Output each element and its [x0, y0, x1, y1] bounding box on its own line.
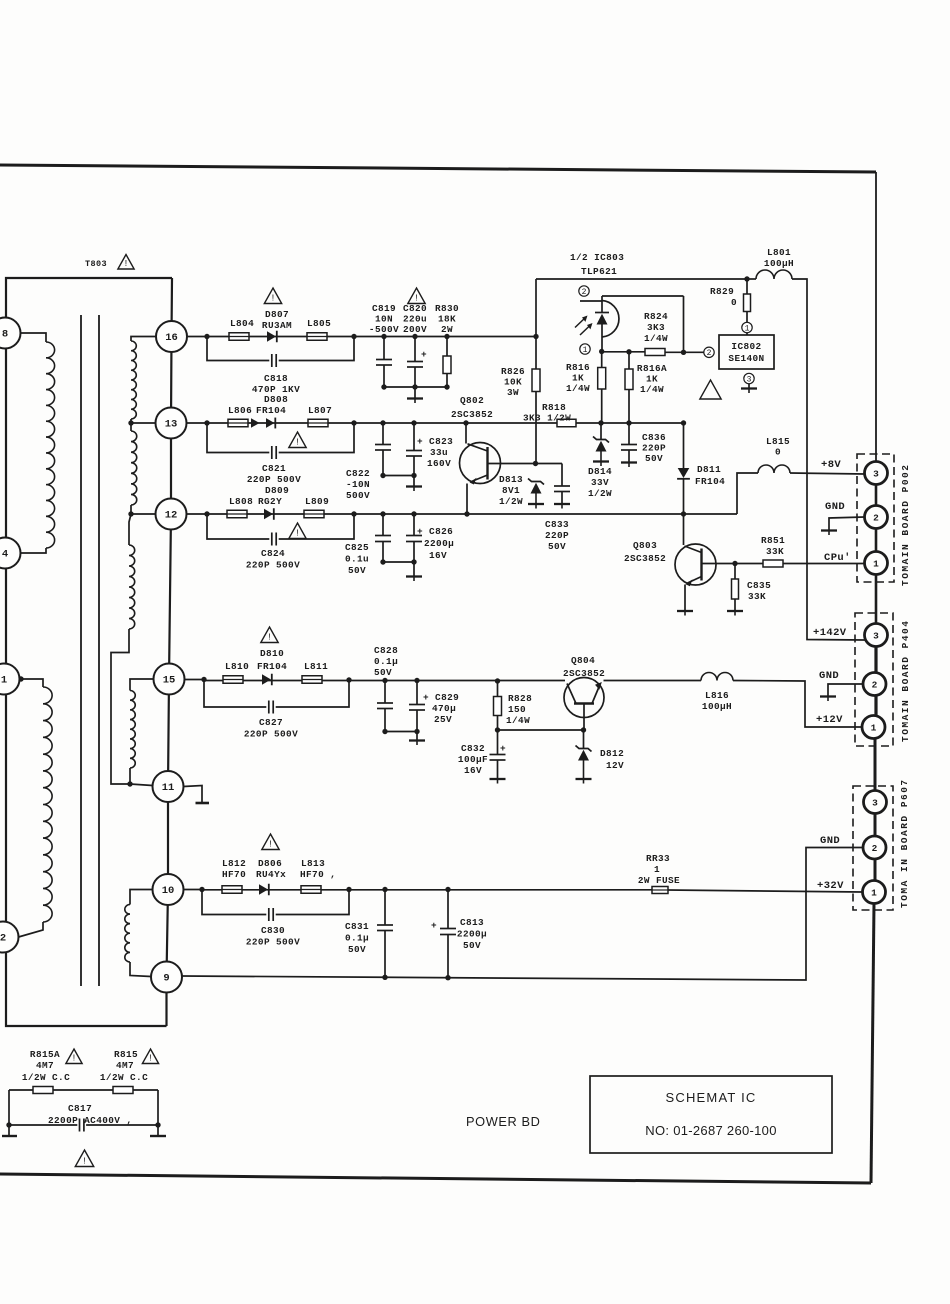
svg-text:GND: GND: [825, 501, 845, 513]
svg-text:GND: GND: [819, 670, 839, 682]
resistor C835 33K: [734, 564, 736, 580]
svg-text:L805: L805: [307, 318, 331, 329]
capacitor C836: [628, 423, 630, 445]
svg-text:+ C823: + C823: [417, 436, 453, 447]
svg-text:1/2W C.C: 1/2W C.C: [22, 1072, 70, 1083]
wire Q804 to L816: [604, 680, 702, 682]
capacitor C824 bypass loop: [207, 514, 269, 539]
svg-text:3K3: 3K3: [647, 322, 665, 333]
svg-text:-10N: -10N: [346, 479, 370, 490]
svg-text:0.1μ: 0.1μ: [374, 656, 398, 667]
transformer pin 1: [0, 664, 20, 695]
inductor L811: [302, 676, 322, 684]
optocoupler phototransistor D shape: [602, 301, 619, 338]
svg-text:3: 3: [747, 375, 752, 384]
transistor Q804 2SC3852: [564, 678, 604, 718]
svg-text:3K3 1/2W: 3K3 1/2W: [523, 413, 571, 424]
resistor R818: [557, 419, 576, 427]
wire row15 main: [204, 680, 565, 682]
svg-text:1/4W: 1/4W: [506, 715, 530, 726]
IC802 SE140N box: [719, 335, 774, 369]
wire row10 from pin10: [184, 889, 203, 891]
junction C829 top: [414, 678, 419, 683]
junction C822 top: [380, 420, 385, 425]
junction row1 at R826 line: [533, 334, 538, 339]
junction row2 left: [204, 420, 209, 425]
svg-text:2200P AC400V ,: 2200P AC400V ,: [48, 1115, 132, 1126]
diode D806 RU4YX: [259, 884, 268, 894]
capacitor C828: [384, 681, 386, 704]
wire L801 to +142V rail: [792, 279, 865, 640]
ground stub P002 pin2: [829, 517, 865, 530]
svg-text:R816A: R816A: [637, 363, 667, 374]
svg-text:9: 9: [163, 973, 169, 985]
junction C813 bottom: [445, 975, 450, 980]
resistor R815: [113, 1087, 133, 1094]
ground below C820: [414, 387, 416, 399]
inductor L809: [304, 510, 324, 518]
svg-text:+ C826: + C826: [417, 526, 453, 537]
svg-text:220P 500V: 220P 500V: [247, 474, 301, 485]
wire Q802 emitter down: [466, 484, 468, 515]
svg-text:!: !: [295, 529, 300, 539]
capacitor C823 (electrolytic): [413, 423, 415, 451]
winding pin1-pin2 (primary left lower): [21, 679, 44, 687]
svg-text:0: 0: [731, 297, 737, 308]
optocoupler LED: [601, 296, 603, 313]
resistor R851: [763, 560, 783, 567]
junction Q802 emitter row3: [464, 511, 469, 516]
capacitor C830 bypass loop: [202, 890, 266, 915]
wire row3 caps bottom: [383, 561, 414, 563]
winding pin12-pin11 with bypass wire: [129, 514, 131, 545]
junction C832: [495, 727, 500, 732]
page frame top edge: [0, 165, 876, 172]
svg-text:500V: 500V: [346, 490, 370, 501]
svg-text:50V: 50V: [548, 541, 566, 552]
svg-text:D814: D814: [588, 466, 612, 477]
junction row3 at D811 line: [681, 511, 686, 516]
junction row15 right of L811: [346, 677, 351, 682]
capacitor C825: [382, 514, 384, 536]
circled 2 LED anode: [579, 286, 589, 296]
junction at pin 1: [18, 676, 23, 681]
svg-text:2: 2: [707, 349, 712, 358]
resistor R830: [446, 337, 448, 357]
junction node 1: [599, 349, 604, 354]
capacitor C818 bypass loop: [207, 337, 269, 361]
svg-text:R828: R828: [508, 693, 532, 704]
svg-text:Q802: Q802: [460, 395, 484, 406]
winding pin16-pin13: [131, 337, 156, 342]
wire fuse to P607 pin1 +32V: [668, 890, 862, 892]
svg-text:2: 2: [582, 288, 587, 297]
wire Q803 emitter to ground: [684, 585, 686, 611]
junction R829 top: [744, 276, 749, 281]
svg-text:4: 4: [2, 549, 8, 561]
optocoupler top box: [602, 295, 684, 297]
warning triangle left of IC802 pin3: [700, 380, 721, 399]
junction C823 top: [411, 420, 416, 425]
junction C825 top: [380, 511, 385, 516]
svg-text:+32V: +32V: [817, 880, 844, 892]
svg-text:0.1μ: 0.1μ: [345, 933, 369, 944]
optocoupler box right wire: [683, 296, 685, 352]
junction base-R826 line: [533, 461, 538, 466]
junction row2 right of L807: [351, 420, 356, 425]
svg-text:1: 1: [873, 558, 879, 569]
svg-text:!: !: [267, 633, 272, 643]
svg-text:160V: 160V: [427, 458, 451, 469]
junction opto box right: [681, 350, 686, 355]
junction row10 left: [199, 887, 204, 892]
svg-text:C831: C831: [345, 921, 369, 932]
transformer secondary pin rail: [167, 278, 173, 1026]
svg-text:L804: L804: [230, 318, 254, 329]
svg-text:L809: L809: [305, 496, 329, 507]
svg-text:RU4Yx: RU4Yx: [256, 869, 286, 880]
wire row1 bottom bus: [384, 386, 447, 388]
svg-text:+: +: [431, 920, 437, 931]
svg-text:L801: L801: [767, 247, 791, 258]
connector P404 dashed box: [855, 613, 893, 746]
transformer pin 10: [153, 874, 184, 905]
svg-text:+ C829: + C829: [423, 692, 459, 703]
svg-text:TOMAIN BOARD P002: TOMAIN BOARD P002: [900, 464, 911, 586]
junction C820 top: [412, 334, 417, 339]
svg-text:16V: 16V: [429, 550, 447, 561]
wire row2 caps bottom: [383, 475, 414, 477]
svg-text:1/2W C.C: 1/2W C.C: [100, 1072, 148, 1083]
capacitor C831: [384, 890, 386, 926]
junction C831 top: [382, 887, 387, 892]
connector spine P002: [875, 462, 878, 624]
svg-text:1/4W: 1/4W: [640, 384, 664, 395]
wire Q803 base: [702, 563, 764, 565]
inductor L808: [227, 510, 247, 518]
transformer pin 12: [156, 499, 187, 530]
wire row2 main: [207, 422, 684, 424]
svg-text:1: 1: [654, 864, 660, 875]
svg-text:D806: D806: [258, 858, 282, 869]
svg-text:D807: D807: [265, 309, 289, 320]
schematic number box: [590, 1076, 832, 1153]
warning triangle above D806: [262, 834, 279, 850]
junction R816 bottom: [598, 420, 603, 425]
inductor L807: [308, 419, 328, 427]
svg-text:+: +: [421, 349, 427, 360]
svg-text:L808: L808: [229, 496, 253, 507]
circled 1 IC802 top pin: [742, 322, 752, 332]
junction row15 left: [201, 677, 206, 682]
diode D808 FR104 (double element): [251, 418, 260, 428]
svg-text:C828: C828: [374, 645, 398, 656]
svg-text:R815A: R815A: [30, 1049, 60, 1060]
warning triangle in row2 loop: [289, 432, 306, 448]
transformer pin 11: [153, 771, 184, 802]
svg-text:100μH: 100μH: [764, 258, 794, 269]
svg-text:220P 500V: 220P 500V: [246, 937, 300, 948]
svg-text:FR104: FR104: [695, 476, 725, 487]
svg-text:25V: 25V: [434, 714, 452, 725]
svg-text:TLP621: TLP621: [581, 266, 617, 277]
svg-text:2W: 2W: [441, 324, 453, 335]
svg-text:50V: 50V: [463, 940, 481, 951]
svg-text:!: !: [82, 1157, 87, 1167]
svg-text:Q803: Q803: [633, 540, 657, 551]
junction row1 left: [204, 334, 209, 339]
svg-text:16: 16: [165, 332, 178, 344]
svg-text:R829: R829: [710, 286, 734, 297]
ground at pin 11: [184, 786, 203, 803]
capacitor C820 (electrolytic): [414, 337, 416, 362]
svg-text:33u: 33u: [430, 447, 448, 458]
connector P002 dashed box: [857, 454, 894, 582]
capacitor C819: [383, 337, 385, 360]
svg-text:RU3AM: RU3AM: [262, 320, 292, 331]
transformer pin 15: [154, 664, 185, 695]
junction D812 top: [581, 727, 586, 732]
winding pin15-pin11: [130, 679, 154, 691]
svg-text:1K: 1K: [572, 373, 584, 384]
svg-text:1/2W: 1/2W: [588, 488, 612, 499]
terminal bar left: [2, 1135, 17, 1137]
P404 pin 3: [865, 624, 888, 647]
inductor L812: [222, 886, 242, 894]
wire row2 from pin13: [187, 422, 208, 424]
ground below C823: [413, 476, 415, 487]
svg-text:13: 13: [165, 419, 178, 431]
transformer pin 8: [0, 318, 21, 349]
svg-text:+8V: +8V: [821, 459, 841, 471]
resistor R826 vertical line: [535, 279, 537, 369]
svg-text:1/2W: 1/2W: [499, 496, 523, 507]
svg-text:2SC3852: 2SC3852: [563, 668, 605, 679]
svg-text:2200μ: 2200μ: [457, 929, 487, 940]
transistor Q802 2SC3852: [465, 423, 467, 444]
svg-text:1: 1: [871, 722, 877, 733]
svg-text:-500V: -500V: [369, 324, 399, 335]
inductor L801 100uH: [747, 278, 756, 280]
zener D813: [528, 479, 544, 485]
junction C826 top: [411, 511, 416, 516]
svg-text:CPu': CPu': [824, 552, 851, 564]
svg-text:4M7: 4M7: [116, 1060, 134, 1071]
inductor L810: [223, 676, 243, 684]
resistor R824: [645, 349, 665, 356]
svg-text:R826: R826: [501, 366, 525, 377]
wire right leg C817 circuit: [157, 1090, 159, 1136]
svg-text:!: !: [268, 840, 273, 850]
svg-text:SCHEMAT IC: SCHEMAT IC: [666, 1090, 757, 1105]
svg-text:L813: L813: [301, 858, 325, 869]
capacitor C813 (electrolytic): [447, 890, 449, 929]
junction R816A top: [626, 349, 631, 354]
svg-text:L810: L810: [225, 661, 249, 672]
ground below C826: [413, 562, 415, 576]
svg-text:C817: C817: [68, 1103, 92, 1114]
svg-text:!: !: [148, 1054, 153, 1064]
svg-text:HF70 ,: HF70 ,: [300, 869, 336, 880]
svg-text:2: 2: [872, 843, 878, 854]
junction R828 top: [495, 678, 500, 683]
wire row3 corner to L815: [737, 473, 758, 514]
transformer pin 9: [151, 962, 182, 993]
svg-text:1: 1: [871, 887, 877, 898]
svg-text:TOMAIN BOARD P404: TOMAIN BOARD P404: [900, 620, 911, 742]
svg-text:50V: 50V: [645, 453, 663, 464]
P607 pin 1: [863, 881, 886, 904]
svg-text:SE140N: SE140N: [728, 353, 764, 364]
winding pin13-pin12: [131, 431, 137, 505]
svg-text:200V: 200V: [403, 324, 427, 335]
page frame right edge upper: [875, 172, 877, 462]
wire row3 main: [207, 513, 737, 515]
wire L816 to P404 pin1 +12V: [733, 681, 862, 728]
svg-text:220P 500V: 220P 500V: [244, 729, 298, 740]
svg-text:16V: 16V: [464, 765, 482, 776]
svg-text:C830: C830: [261, 925, 285, 936]
svg-text:33K: 33K: [748, 591, 766, 602]
junction base C835: [732, 561, 737, 566]
svg-text:C822: C822: [346, 468, 370, 479]
capacitor C827 bypass loop: [204, 680, 266, 708]
svg-text:220u: 220u: [403, 314, 427, 325]
warning triangle right of R815: [142, 1049, 158, 1064]
transformer T803 body box: [6, 278, 172, 1026]
capacitor C821 bypass loop: [207, 423, 269, 453]
svg-text:12V: 12V: [606, 760, 624, 771]
svg-text:220P 500V: 220P 500V: [246, 560, 300, 571]
junction row1 right: [351, 334, 356, 339]
P607 pin 3: [864, 791, 887, 814]
svg-text:C825: C825: [345, 542, 369, 553]
svg-text:R830: R830: [435, 303, 459, 314]
svg-text:10K: 10K: [504, 377, 522, 388]
svg-text:POWER BD: POWER BD: [466, 1114, 540, 1129]
capacitor C832 (electrolytic): [497, 730, 499, 755]
svg-text:100μF: 100μF: [458, 754, 488, 765]
svg-text:!: !: [123, 259, 128, 269]
connector spine P404: [874, 624, 877, 739]
optocoupler light arrows: [575, 317, 586, 328]
warning triangle above D810: [261, 627, 278, 643]
svg-text:R815: R815: [114, 1049, 138, 1060]
svg-text:8: 8: [2, 329, 8, 341]
svg-text:C827: C827: [259, 717, 283, 728]
wire row1 from pin16: [187, 336, 207, 338]
P607 pin 2: [863, 836, 886, 859]
capacitor C829 (electrolytic): [416, 681, 418, 705]
svg-text:12: 12: [165, 510, 178, 522]
inductor L804: [229, 333, 249, 341]
inductor L815: [758, 465, 790, 473]
junction C831 bottom: [382, 975, 387, 980]
svg-text:C818: C818: [264, 373, 288, 384]
svg-text:NO: 01-2687 260-100: NO: 01-2687 260-100: [645, 1123, 776, 1138]
P404 pin 1: [862, 716, 885, 739]
junction row3 left: [204, 511, 209, 516]
ground IC802 pin3: [748, 384, 750, 389]
inductor L816 100uH: [701, 673, 733, 681]
diode D810 FR104: [262, 674, 271, 684]
svg-text:C824: C824: [261, 548, 285, 559]
svg-text:C833: C833: [545, 519, 569, 530]
svg-text:IC802: IC802: [731, 341, 761, 352]
warning triangle near T803: [118, 255, 134, 270]
P002 pin 1: [865, 552, 888, 575]
svg-text:470μ: 470μ: [432, 703, 456, 714]
svg-text:1: 1: [583, 346, 588, 355]
junction C819 top: [381, 334, 386, 339]
terminal bar right: [150, 1135, 166, 1137]
svg-text:L807: L807: [308, 405, 332, 416]
transformer pin 4: [0, 538, 21, 569]
resistor R828: [497, 681, 499, 697]
svg-text:15: 15: [163, 675, 176, 687]
svg-text:L812: L812: [222, 858, 246, 869]
resistor R816A: [628, 352, 630, 369]
svg-text:!: !: [71, 1054, 76, 1064]
svg-text:3: 3: [873, 630, 879, 641]
junction Q802 collector: [463, 420, 468, 425]
junction R816A bottom: [626, 420, 631, 425]
inductor L813: [301, 886, 321, 894]
capacitor C817 2200P AC400V: [8, 1090, 10, 1136]
diode D809 RG2Y: [264, 509, 273, 519]
resistor R816: [601, 352, 603, 368]
transformer core lines: [80, 315, 82, 986]
svg-text:3: 3: [872, 797, 878, 808]
svg-text:1: 1: [1, 675, 7, 687]
page frame bottom edge: [0, 1174, 871, 1183]
svg-text:+: +: [500, 743, 506, 754]
svg-text:4M7: 4M7: [36, 1060, 54, 1071]
svg-text:2W FUSE: 2W FUSE: [638, 875, 680, 886]
svg-text:T803: T803: [85, 259, 107, 269]
diode D811 FR104: [683, 423, 685, 468]
svg-text:3W: 3W: [507, 387, 519, 398]
svg-text:!: !: [270, 294, 275, 304]
svg-text:C821: C821: [262, 463, 286, 474]
ground stub P404 pin2: [828, 684, 863, 696]
zener D814: [600, 423, 602, 440]
wire row15 from pin15: [185, 679, 205, 681]
junction C813 top: [445, 887, 450, 892]
svg-text:8V1: 8V1: [502, 485, 520, 496]
wire C828-C829 bottom: [385, 731, 417, 733]
capacitor C833: [561, 464, 563, 487]
wire row9 ground rail: [182, 848, 863, 981]
svg-text:50V: 50V: [374, 667, 392, 678]
wire R851 to P002 pin1 CPU: [783, 563, 865, 565]
inductor L806: [228, 419, 248, 427]
warning triangle above C820: [408, 288, 425, 304]
svg-text:50V: 50V: [348, 944, 366, 955]
svg-text:L806: L806: [228, 405, 252, 416]
transformer pin 16: [156, 321, 187, 352]
wire R828 to D812: [498, 729, 584, 731]
svg-text:D810: D810: [260, 648, 284, 659]
svg-text:2SC3852: 2SC3852: [451, 409, 493, 420]
svg-text:18K: 18K: [438, 314, 456, 325]
svg-text:D808: D808: [264, 394, 288, 405]
svg-text:Q804: Q804: [571, 655, 595, 666]
svg-text:2SC3852: 2SC3852: [624, 553, 666, 564]
winding pin10-pin9: [130, 890, 153, 905]
svg-text:+142V: +142V: [813, 627, 847, 639]
junction row3 right of L809: [351, 511, 356, 516]
